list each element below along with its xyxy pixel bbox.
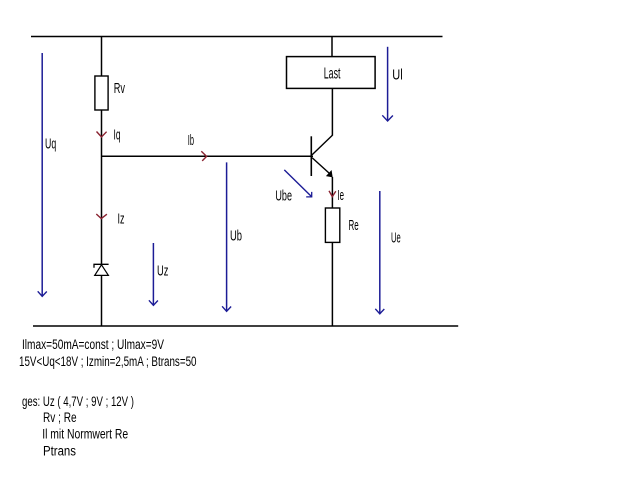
svg-text:ges: Uz ( 4,7V ; 9V ; 12V ): ges: Uz ( 4,7V ; 9V ; 12V ) [22, 394, 134, 409]
transistor Q1 emitter diagonal [312, 158, 332, 176]
voltage arrow Uq [41, 53, 43, 296]
wire bottom supply rail [33, 325, 458, 327]
wire zener to bottom rail [101, 275, 103, 326]
voltage arrow Ube (diagonal) [284, 170, 311, 197]
svg-text:Uz: Uz [157, 262, 168, 279]
svg-text:15V<Uq<18V ; Izmin=2,5mA ; Btr: 15V<Uq<18V ; Izmin=2,5mA ; Btrans=50 [19, 354, 197, 369]
current arrow Iq [97, 132, 107, 138]
current arrow Ib [201, 151, 206, 161]
current arrow Iz [96, 214, 107, 219]
zener diode DZ cathode bar [94, 264, 109, 268]
wire top rail to Rv [101, 37, 103, 77]
svg-text:Uq: Uq [45, 135, 56, 152]
wire Rv to zener (through node) [101, 110, 103, 264]
transistor Q1 collector diagonal [312, 135, 332, 155]
svg-text:Ib: Ib [188, 132, 194, 149]
svg-text:Ul: Ul [392, 66, 402, 83]
wire collector to Last box [331, 89, 333, 136]
svg-text:Rv ; Re: Rv ; Re [43, 410, 77, 425]
svg-text:Rv: Rv [114, 80, 126, 97]
svg-text:Ub: Ub [230, 227, 242, 244]
wire base (node to transistor base) [102, 155, 314, 157]
svg-text:Ue: Ue [391, 230, 401, 247]
transistor Q1 base bar [310, 136, 312, 176]
voltage arrow Ul [387, 47, 389, 121]
current arrow Ie [329, 191, 336, 197]
wire emitter to Re [331, 177, 333, 208]
transistor Q1 emitter arrowhead [327, 171, 333, 177]
svg-text:Ie: Ie [337, 187, 344, 204]
svg-text:Ube: Ube [275, 187, 292, 204]
voltage arrow Ue [379, 191, 381, 314]
svg-text:Il mit Normwert Re: Il mit Normwert Re [42, 427, 128, 442]
svg-text:Iq: Iq [114, 127, 121, 144]
resistor Rv [95, 76, 108, 110]
svg-text:Last: Last [324, 65, 341, 82]
wire top supply rail [31, 36, 443, 38]
zener diode DZ triangle [95, 265, 109, 276]
voltage arrow Ub [226, 162, 228, 311]
svg-text:Re: Re [349, 217, 359, 234]
svg-text:Ilmax=50mA=const ; Ulmax=9V: Ilmax=50mA=const ; Ulmax=9V [22, 337, 164, 352]
resistor Re [325, 208, 339, 242]
wire top rail to Last box [331, 37, 333, 57]
svg-text:Iz: Iz [118, 211, 125, 228]
voltage arrow Uz [152, 243, 154, 305]
wire Re to bottom rail [331, 242, 333, 326]
svg-text:Ptrans: Ptrans [43, 444, 76, 459]
load box Last [287, 57, 376, 89]
